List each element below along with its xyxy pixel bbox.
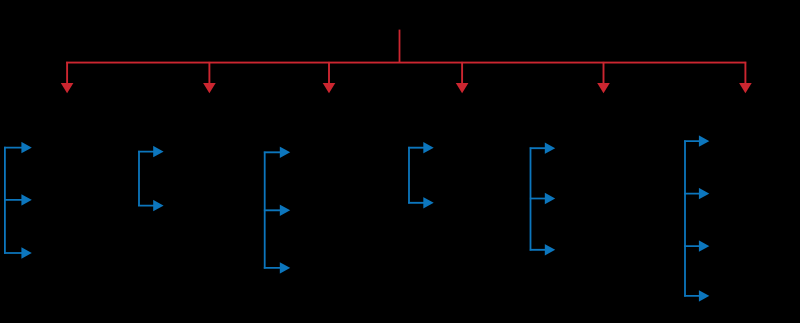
blue bracket group G4 vertical line: [408, 147, 410, 204]
red branch arrow 1: [61, 62, 74, 93]
red branch arrow 5: [597, 62, 610, 93]
blue arrow G1-3: [4, 247, 32, 258]
blue arrow G3-3: [264, 262, 290, 273]
red branch arrow 6: [739, 62, 752, 93]
red trunk stub: [399, 30, 401, 64]
blue arrow G4-2: [408, 197, 434, 208]
blue arrow G5-3: [530, 244, 556, 255]
red branch arrow 2: [203, 62, 216, 93]
blue arrow G6-1: [684, 135, 709, 146]
red branch arrow 4: [456, 62, 469, 93]
blue bracket group G3 vertical line: [264, 151, 266, 268]
blue bracket group G6 vertical line: [684, 140, 686, 297]
blue arrow G6-2: [684, 188, 709, 199]
blue arrow G6-3: [684, 240, 709, 251]
blue arrow G4-1: [408, 142, 434, 153]
blue arrow G3-1: [264, 147, 290, 158]
blue arrow G1-1: [4, 142, 32, 153]
blue arrow G2-1: [138, 146, 164, 157]
blue arrow G6-4: [684, 290, 709, 301]
blue arrow G5-1: [530, 143, 556, 154]
blue bracket group G5 vertical line: [530, 147, 532, 250]
blue arrow G2-2: [138, 200, 164, 211]
blue arrow G3-2: [264, 205, 290, 216]
blue arrow G5-2: [530, 193, 556, 204]
red horizontal distribution bar: [66, 62, 746, 64]
blue bracket group G2 vertical line: [138, 151, 140, 207]
red branch arrow 3: [323, 62, 336, 93]
blue arrow G1-2: [4, 194, 32, 205]
blue bracket group G1 vertical line: [4, 147, 6, 254]
